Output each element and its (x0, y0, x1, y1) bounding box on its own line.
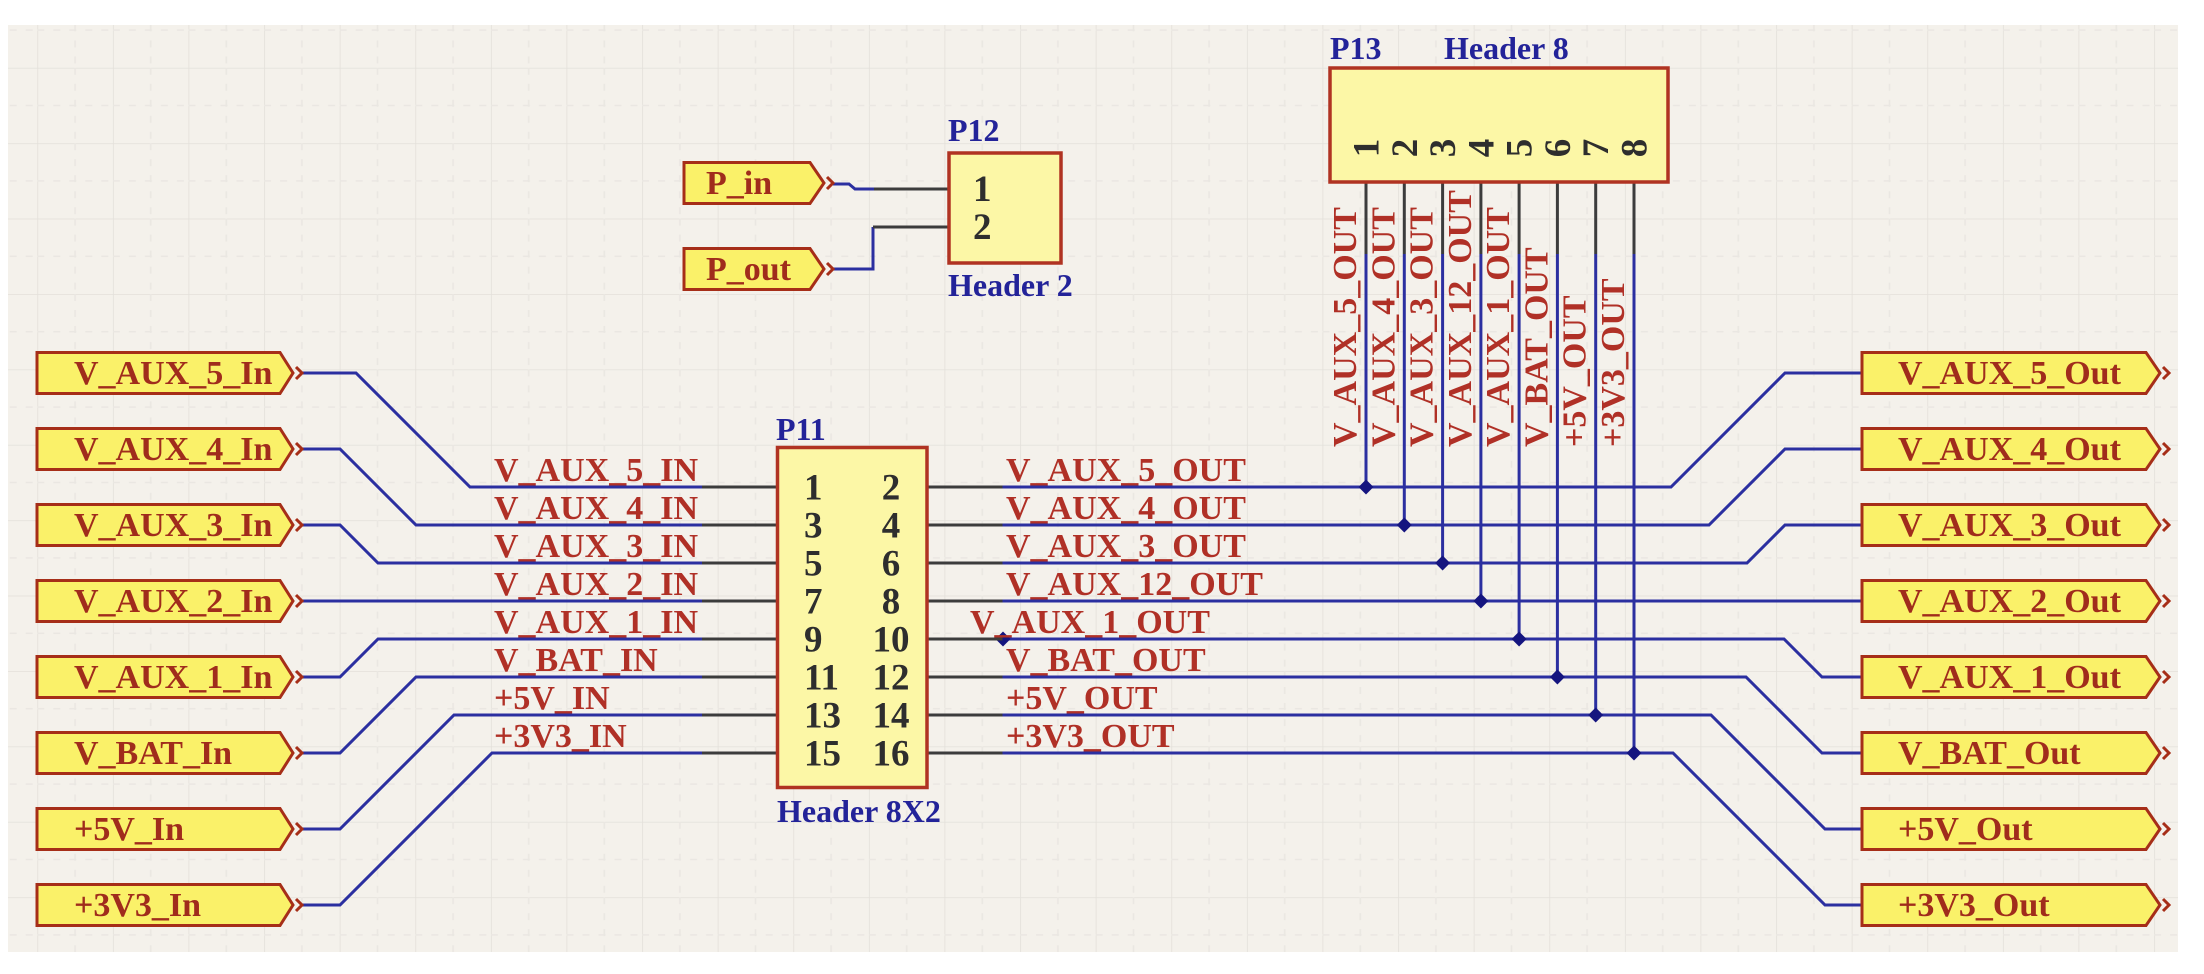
pin P11 pin 7 (702, 600, 778, 603)
port +5V_Out (1862, 809, 2169, 850)
wire P11 to V_AUX_2_Out (1002, 600, 1862, 603)
wire P11 to V_AUX_3_Out (1002, 525, 1862, 563)
svg-text:V_AUX_3_Out: V_AUX_3_Out (1898, 507, 2122, 544)
svg-text:V_AUX_5_In: V_AUX_5_In (74, 355, 272, 392)
svg-text:P_out: P_out (706, 251, 792, 288)
svg-text:14: 14 (873, 696, 910, 737)
svg-text:5: 5 (1500, 139, 1541, 158)
pin P13 pin 8 stub (1633, 182, 1636, 254)
wire P11 to V_BAT_Out (1002, 677, 1862, 753)
port V_AUX_4_Out (1862, 429, 2169, 470)
wire V_BAT_In to P11 (300, 677, 702, 753)
svg-text:V_AUX_4_Out: V_AUX_4_Out (1898, 431, 2122, 468)
pin P13 pin 3 stub (1441, 182, 1444, 254)
svg-text:V_AUX_3_OUT: V_AUX_3_OUT (1006, 528, 1246, 565)
port P_in (684, 163, 833, 204)
svg-text:3: 3 (804, 506, 823, 547)
svg-text:1: 1 (804, 468, 823, 509)
port +5V_In (37, 809, 302, 850)
pin P11 pin 11 (702, 676, 778, 679)
svg-text:2: 2 (1385, 139, 1426, 158)
junction P13 pin 8 on row +3V3_OUT (1627, 746, 1642, 761)
svg-text:6: 6 (882, 544, 901, 585)
svg-text:P11: P11 (776, 411, 826, 447)
svg-text:V_AUX_3_IN: V_AUX_3_IN (494, 528, 698, 565)
svg-text:13: 13 (804, 696, 841, 737)
pin P13 pin 5 stub (1518, 182, 1521, 254)
wire P11 to +3V3_Out (1002, 753, 1862, 905)
wire P11 to V_AUX_4_Out (1002, 449, 1862, 525)
svg-text:16: 16 (873, 734, 910, 775)
junction P13 pin 4 on row V_AUX_12_OUT (1473, 594, 1488, 609)
svg-text:V_BAT_IN: V_BAT_IN (494, 642, 658, 679)
pin P13 pin 4 stub (1479, 182, 1482, 254)
pin P11 pin 4 (927, 524, 1003, 527)
svg-text:V_AUX_3_OUT: V_AUX_3_OUT (1404, 207, 1441, 447)
svg-text:V_AUX_2_IN: V_AUX_2_IN (494, 566, 698, 603)
svg-text:V_AUX_1_IN: V_AUX_1_IN (494, 604, 698, 641)
svg-text:1: 1 (973, 169, 992, 210)
svg-text:11: 11 (804, 658, 839, 699)
svg-text:V_BAT_In: V_BAT_In (74, 735, 232, 772)
pin P13 pin 6 stub (1556, 182, 1559, 254)
wire P13 pin 3 down to net V_AUX_3_OUT (1441, 254, 1444, 563)
svg-text:4: 4 (1461, 139, 1502, 158)
svg-text:V_AUX_2_Out: V_AUX_2_Out (1898, 583, 2122, 620)
svg-text:V_AUX_4_In: V_AUX_4_In (74, 431, 272, 468)
port +3V3_Out (1862, 885, 2169, 926)
svg-text:15: 15 (804, 734, 841, 775)
wire P13 pin 7 down to net +5V_OUT (1594, 254, 1597, 715)
svg-text:V_AUX_1_OUT: V_AUX_1_OUT (970, 604, 1210, 641)
svg-text:2: 2 (973, 207, 992, 248)
svg-text:12: 12 (873, 658, 910, 699)
port +3V3_In (37, 885, 302, 926)
svg-text:2: 2 (882, 468, 901, 509)
pin P13 pin 2 stub (1403, 182, 1406, 254)
svg-text:V_BAT_Out: V_BAT_Out (1898, 735, 2081, 772)
svg-text:+5V_IN: +5V_IN (494, 680, 610, 717)
pin P11 pin 3 (702, 524, 778, 527)
svg-text:V_AUX_4_OUT: V_AUX_4_OUT (1365, 207, 1402, 447)
svg-text:V_BAT_OUT: V_BAT_OUT (1518, 247, 1555, 447)
wire P13 pin 4 down to net V_AUX_12_OUT (1479, 254, 1482, 601)
port V_AUX_2_In (37, 581, 302, 622)
wire V_AUX_3_In to P11 (300, 525, 702, 563)
junction P13 pin 5 on row V_AUX_1_OUT (1512, 632, 1527, 647)
port V_AUX_1_In (37, 657, 302, 698)
pin P11 pin 5 (702, 562, 778, 565)
svg-text:+5V_OUT: +5V_OUT (1006, 680, 1158, 717)
svg-text:V_AUX_4_OUT: V_AUX_4_OUT (1006, 490, 1246, 527)
svg-text:+5V_Out: +5V_Out (1898, 811, 2033, 848)
pin P11 pin 16 (927, 752, 1003, 755)
svg-text:9: 9 (804, 620, 823, 661)
port P_out (684, 249, 833, 290)
wire P_out to P12 pin 2 (833, 227, 873, 269)
svg-text:+3V3_OUT: +3V3_OUT (1595, 278, 1632, 447)
svg-text:4: 4 (882, 506, 901, 547)
port V_AUX_4_In (37, 429, 302, 470)
svg-text:+5V_OUT: +5V_OUT (1557, 295, 1594, 447)
svg-text:V_BAT_OUT: V_BAT_OUT (1006, 642, 1206, 679)
wire P13 pin 8 down to net +3V3_OUT (1633, 254, 1636, 753)
pin P11 pin 15 (702, 752, 778, 755)
wire P11 to V_AUX_5_Out (1002, 373, 1862, 487)
pin P11 pin 6 (927, 562, 1003, 565)
svg-text:V_AUX_12_OUT: V_AUX_12_OUT (1006, 566, 1263, 603)
pin P11 pin 2 (927, 486, 1003, 489)
wire +3V3_In to P11 (300, 753, 702, 905)
svg-text:V_AUX_2_In: V_AUX_2_In (74, 583, 272, 620)
wire P11 to V_AUX_1_Out (1002, 639, 1862, 677)
svg-text:6: 6 (1538, 139, 1579, 158)
svg-text:P13: P13 (1330, 30, 1382, 66)
pin P11 pin 10 (927, 638, 1003, 641)
svg-text:V_AUX_4_IN: V_AUX_4_IN (494, 490, 698, 527)
pin P11 pin 9 (702, 638, 778, 641)
svg-text:5: 5 (804, 544, 823, 585)
pin P11 pin 12 (927, 676, 1003, 679)
svg-text:Header 8: Header 8 (1444, 30, 1569, 66)
junction P13 pin 7 on row +5V_OUT (1588, 708, 1603, 723)
svg-text:P_in: P_in (706, 165, 772, 202)
svg-text:7: 7 (804, 582, 823, 623)
svg-text:V_AUX_5_Out: V_AUX_5_Out (1898, 355, 2122, 392)
svg-text:8: 8 (882, 582, 901, 623)
wire V_AUX_5_In to P11 (300, 373, 702, 487)
svg-text:V_AUX_5_OUT: V_AUX_5_OUT (1327, 207, 1364, 447)
connector P12 Header 2 (949, 153, 1061, 263)
svg-text:1: 1 (1347, 139, 1388, 158)
pin P12 pin 1 (874, 188, 949, 191)
junction P13 pin 1 on row V_AUX_5_OUT (1359, 480, 1374, 495)
svg-text:+3V3_OUT: +3V3_OUT (1006, 718, 1175, 755)
junction V_AUX_1_OUT at P11 pin 10 (996, 632, 1011, 647)
wire P13 pin 2 down to net V_AUX_4_OUT (1403, 254, 1406, 525)
wire P11 to +5V_Out (1002, 715, 1862, 829)
wire P13 pin 6 down to net V_BAT_OUT (1556, 254, 1559, 677)
svg-text:+5V_In: +5V_In (74, 811, 184, 848)
pin P13 pin 7 stub (1594, 182, 1597, 254)
svg-text:Header 2: Header 2 (948, 267, 1073, 303)
pin P11 pin 14 (927, 714, 1003, 717)
svg-text:V_AUX_5_OUT: V_AUX_5_OUT (1006, 452, 1246, 489)
svg-text:V_AUX_5_IN: V_AUX_5_IN (494, 452, 698, 489)
connector P13 Header 8 (1330, 68, 1668, 182)
connector P11 Header 8X2 (778, 448, 928, 788)
svg-text:+3V3_In: +3V3_In (74, 887, 201, 924)
svg-text:+3V3_Out: +3V3_Out (1898, 887, 2050, 924)
junction P13 pin 3 on row V_AUX_3_OUT (1435, 556, 1450, 571)
port V_AUX_5_In (37, 353, 302, 394)
wire +5V_In to P11 (300, 715, 702, 829)
svg-text:7: 7 (1576, 139, 1617, 158)
port V_AUX_1_Out (1862, 657, 2169, 698)
pin P13 pin 1 stub (1365, 182, 1368, 254)
wire V_AUX_2_In to P11 (300, 600, 702, 603)
port V_BAT_In (37, 733, 302, 774)
pin P12 pin 2 (873, 226, 949, 229)
svg-text:Header 8X2: Header 8X2 (777, 793, 941, 829)
pin P11 pin 1 (702, 486, 778, 489)
port V_AUX_3_Out (1862, 505, 2169, 546)
svg-text:P12: P12 (948, 112, 1000, 148)
svg-text:V_AUX_1_OUT: V_AUX_1_OUT (1480, 207, 1517, 447)
pin P11 pin 8 (927, 600, 1003, 603)
svg-text:+3V3_IN: +3V3_IN (494, 718, 627, 755)
svg-text:V_AUX_1_In: V_AUX_1_In (74, 659, 272, 696)
svg-text:10: 10 (873, 620, 910, 661)
wire P13 pin 5 down to net V_AUX_1_OUT (1518, 254, 1521, 639)
svg-text:8: 8 (1615, 139, 1656, 158)
wire V_AUX_4_In to P11 (300, 449, 702, 525)
svg-text:V_AUX_12_OUT: V_AUX_12_OUT (1442, 190, 1479, 447)
junction P13 pin 6 on row V_BAT_OUT (1550, 670, 1565, 685)
port V_AUX_3_In (37, 505, 302, 546)
wire V_AUX_1_In to P11 (300, 639, 702, 677)
port V_BAT_Out (1862, 733, 2169, 774)
pin P11 pin 13 (702, 714, 778, 717)
svg-text:V_AUX_1_Out: V_AUX_1_Out (1898, 659, 2122, 696)
wire P13 pin 1 down to net V_AUX_5_OUT (1365, 254, 1368, 487)
port V_AUX_5_Out (1862, 353, 2169, 394)
wire P_in to P12 pin 1 (833, 184, 874, 189)
svg-text:3: 3 (1423, 139, 1464, 158)
svg-text:V_AUX_3_In: V_AUX_3_In (74, 507, 272, 544)
port V_AUX_2_Out (1862, 581, 2169, 622)
junction P13 pin 2 on row V_AUX_4_OUT (1397, 518, 1412, 533)
